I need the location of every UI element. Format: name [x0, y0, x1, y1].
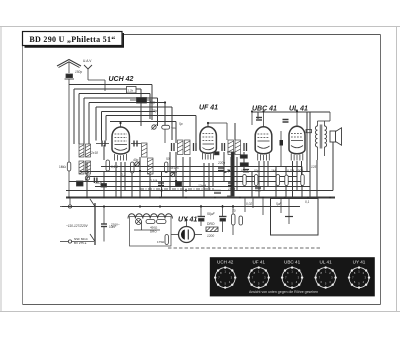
- svg-text:50p: 50p: [254, 169, 260, 173]
- wire bus 3: [90, 176, 297, 178]
- ballast resistor: [146, 220, 155, 224]
- UCH42 tube: [112, 123, 129, 161]
- wire loop 14: [164, 103, 166, 126]
- padder capacitor blob top: [130, 98, 152, 104]
- svg-text:2x05: 2x05: [169, 171, 177, 175]
- wire drop 28: [292, 161, 294, 198]
- junction dot m 2: [207, 122, 209, 124]
- resistor 1MΩ antenna: [67, 162, 71, 198]
- svg-text:5p: 5p: [179, 122, 183, 126]
- wire drop 27: [285, 166, 287, 198]
- wire loop 18: [102, 111, 156, 113]
- wire drop 7: [131, 173, 133, 198]
- wire vert 1: [234, 123, 236, 140]
- junction dot m 4: [251, 110, 253, 112]
- title box: [23, 32, 125, 47]
- wire loop 1: [69, 84, 152, 86]
- junction dot 2: [103, 196, 105, 198]
- svg-text:Ansicht von unten gegen die Rö: Ansicht von unten gegen die Röhre gesehe…: [249, 290, 318, 294]
- junction dot m 1: [164, 101, 166, 103]
- oscillator coil (hatched): [142, 143, 154, 174]
- svg-text:100p: 100p: [228, 187, 235, 191]
- dial lamp: [136, 219, 142, 225]
- wire vert 2: [257, 112, 259, 119]
- svg-text:DRO: DRO: [150, 230, 157, 234]
- svg-text:~110-127/220V: ~110-127/220V: [66, 224, 89, 228]
- wire drop 29: [296, 161, 298, 191]
- svg-text:UCH 42: UCH 42: [217, 260, 234, 265]
- capacitor 10nF mains: [101, 207, 107, 242]
- svg-text:UBC 41: UBC 41: [284, 260, 301, 265]
- trimmer capacitors: [135, 125, 176, 178]
- resistor right of UY41: [232, 205, 243, 235]
- UY41 tube: [171, 220, 202, 243]
- antenna coil T1 (hatched): [79, 144, 91, 174]
- svg-text:0,1: 0,1: [305, 200, 310, 204]
- socket UY 41: [348, 260, 370, 289]
- wire loop 21: [105, 116, 107, 141]
- resistor R 6: [240, 155, 247, 158]
- wire loop 20: [106, 115, 196, 117]
- bus junction dots: [68, 196, 331, 198]
- wire loop 12: [89, 102, 165, 104]
- antenna capacitor 150pF: [65, 74, 75, 163]
- junction dot 1: [68, 196, 70, 198]
- wire drop 23: [258, 161, 260, 198]
- svg-text:UF 41: UF 41: [252, 260, 265, 265]
- wiring UBC/UL top: [252, 112, 330, 167]
- schematic frame: [23, 35, 381, 305]
- wire drop 16: [208, 163, 210, 191]
- svg-text:UL 41: UL 41: [289, 106, 308, 113]
- resistor R 1: [243, 175, 246, 186]
- svg-text:175Ω: 175Ω: [157, 240, 165, 244]
- wire drop 18: [223, 152, 225, 181]
- feedback rectangle: [168, 199, 320, 249]
- tuning cap section below UCH42: [96, 141, 141, 147]
- long bus wires mid: [62, 167, 335, 207]
- wire drop 4: [115, 162, 117, 198]
- wire drop 34: [309, 112, 311, 198]
- resistor pill mid: [162, 125, 178, 143]
- antenna: [57, 60, 81, 74]
- wire drop 9: [149, 174, 151, 198]
- wire drop 20: [236, 157, 238, 191]
- resistor R 3: [276, 175, 279, 186]
- svg-text:150p: 150p: [75, 70, 82, 74]
- wires near bottom right: [245, 198, 263, 216]
- capacitor plate 4: [158, 182, 164, 184]
- wire loop 13: [88, 103, 90, 145]
- wire drop 8: [139, 157, 141, 198]
- wire drop 1: [86, 162, 88, 198]
- aux antenna U.A.V: [84, 65, 105, 91]
- wire drop 30: [301, 161, 303, 186]
- svg-text:UY 41: UY 41: [178, 217, 197, 224]
- resistor R 9: [243, 171, 249, 173]
- junction dot m 6: [185, 189, 187, 191]
- wire drop 17: [212, 163, 214, 186]
- resistor R 7: [240, 163, 248, 166]
- mains component box: [130, 217, 172, 247]
- junction dot m 5: [262, 110, 264, 112]
- AVC dash-dot line: [140, 188, 214, 190]
- capacitor plate 1: [218, 167, 224, 169]
- wire drop 13: [182, 157, 184, 198]
- svg-text:40p: 40p: [133, 158, 139, 162]
- svg-text:0,1M: 0,1M: [150, 179, 157, 183]
- wire bus 6: [66, 190, 333, 192]
- svg-text:UY 41: UY 41: [353, 260, 366, 265]
- junction dot 6: [284, 196, 286, 198]
- UF41 tube: [200, 123, 216, 160]
- wire loop 4: [73, 89, 75, 144]
- wire loop 17: [171, 107, 173, 140]
- blob at UF41 pin base: [215, 152, 220, 155]
- resistor R 8: [243, 169, 249, 171]
- svg-text:300p: 300p: [95, 181, 102, 185]
- wire loop 8: [149, 94, 151, 120]
- wire loop 3: [74, 88, 141, 90]
- svg-text:2,2k: 2,2k: [128, 89, 134, 93]
- resistor 2.2k box top: [127, 87, 137, 94]
- wire loop 22: [195, 116, 197, 144]
- svg-text:BV 275 a: BV 275 a: [74, 241, 87, 245]
- svg-text:DRO: DRO: [207, 222, 215, 226]
- svg-text:3x125: 3x125: [170, 166, 179, 170]
- svg-text:70: 70: [232, 209, 236, 213]
- svg-text:2x18: 2x18: [90, 151, 98, 155]
- svg-text:UCH 42: UCH 42: [109, 76, 134, 83]
- UL41 tube: [289, 119, 305, 161]
- svg-text:5000: 5000: [296, 169, 303, 173]
- svg-text:0,1M: 0,1M: [111, 165, 118, 169]
- speaker: [330, 128, 342, 145]
- wire drop 22: [251, 171, 253, 198]
- svg-text:50: 50: [166, 157, 170, 161]
- wire drop 14: [189, 157, 191, 186]
- output transformer: [315, 121, 326, 160]
- junction dot m 3: [139, 170, 141, 172]
- junction dot 7: [329, 196, 331, 198]
- resistor R 2: [255, 175, 258, 186]
- socket UF 41: [248, 260, 270, 289]
- capacitor plate 3: [255, 187, 261, 189]
- blob near IF1 bottom: [176, 182, 182, 186]
- tiny value labels: [75, 70, 317, 238]
- wire drop 11: [169, 152, 171, 191]
- wire loop 19: [101, 112, 103, 141]
- volume potentiometer: [224, 152, 234, 196]
- socket UBC 41: [281, 260, 303, 289]
- socket UL 41: [314, 260, 336, 289]
- svg-text:0,02: 0,02: [246, 202, 252, 206]
- wire loop 11: [157, 98, 159, 126]
- wire bus 1: [101, 166, 302, 168]
- power switch: [60, 198, 95, 246]
- wire drop 33: [332, 142, 334, 191]
- junction dot 4: [185, 196, 187, 198]
- wire bus 4: [69, 181, 302, 183]
- wire drop 25: [267, 161, 269, 186]
- wire loop 2: [151, 85, 153, 121]
- wire bus 2: [80, 171, 310, 173]
- wire loop 5: [140, 89, 142, 126]
- svg-text:50p: 50p: [150, 101, 156, 105]
- junction dot 3: [139, 196, 141, 198]
- cap stack on bus: [214, 191, 221, 194]
- UBC41 tube: [255, 119, 272, 161]
- IF transformer 1: [172, 140, 197, 155]
- wire loop 10: [83, 98, 85, 144]
- junction dots misc: [103, 101, 298, 221]
- heater chain scallops: [128, 214, 172, 219]
- wire drop 6: [124, 162, 126, 191]
- extra left verticals: [235, 112, 258, 140]
- capacitors mid: [94, 168, 261, 191]
- wire drop 12: [175, 152, 177, 181]
- wire loop 24: [175, 122, 177, 144]
- svg-text:50μF: 50μF: [207, 212, 216, 216]
- svg-text:220V~: 220V~: [111, 223, 120, 227]
- svg-text:U.A.V: U.A.V: [83, 59, 92, 63]
- choke DRO: [206, 227, 218, 232]
- resistor R 5: [301, 175, 304, 186]
- wire drop 35: [306, 112, 308, 172]
- svg-text:25p: 25p: [151, 109, 158, 113]
- wire drop 31: [301, 167, 303, 198]
- wire bus 5: [95, 186, 310, 188]
- resistors below UCH42: [77, 160, 168, 187]
- wire drop 3: [103, 171, 105, 198]
- wire loop 6: [79, 93, 150, 95]
- wire bus 8: [62, 206, 300, 208]
- svg-text:0,1: 0,1: [121, 173, 126, 177]
- svg-text:0,7M: 0,7M: [287, 169, 294, 173]
- wire loop 7: [78, 94, 80, 145]
- capacitor plate 5: [93, 178, 95, 184]
- svg-text:1MΩ: 1MΩ: [59, 165, 66, 169]
- svg-text:UF 41: UF 41: [199, 105, 218, 112]
- wire drop 15: [203, 163, 205, 198]
- svg-text:1M: 1M: [271, 169, 276, 173]
- svg-text:1200: 1200: [207, 234, 214, 238]
- junction dot 5: [239, 196, 241, 198]
- wire drop 24: [263, 161, 265, 191]
- svg-text:UL 41: UL 41: [320, 260, 333, 265]
- vertical drops: [87, 112, 333, 198]
- svg-text:BD 290 U „Philetta 51“: BD 290 U „Philetta 51“: [29, 35, 115, 44]
- wire drop 5: [120, 162, 122, 198]
- wire drop 21: [243, 152, 245, 171]
- wire drop 26: [275, 166, 277, 198]
- wire drop 19: [230, 157, 232, 198]
- electrolytic caps 50uF: [198, 205, 227, 232]
- IF transformer 2: [222, 140, 247, 155]
- wire drop 10: [161, 171, 163, 198]
- wire loop 16: [95, 107, 97, 141]
- svg-text:220p: 220p: [217, 161, 225, 165]
- top interconnect UF41: [208, 123, 227, 140]
- wire loop 9: [84, 97, 158, 99]
- svg-text:70Ω: 70Ω: [171, 126, 177, 130]
- wire drop 2: [103, 145, 105, 160]
- svg-text:13mA: 13mA: [198, 184, 206, 188]
- wire loop 23: [110, 121, 176, 123]
- wire loop 15: [96, 106, 172, 108]
- resistors mid row: [240, 155, 304, 186]
- wire drop 32: [316, 160, 318, 198]
- resistor R 4: [285, 175, 288, 186]
- wire bus 7: [66, 197, 335, 199]
- capacitor plate 2: [228, 182, 234, 184]
- svg-text:125: 125: [311, 165, 317, 169]
- svg-text:0,5M: 0,5M: [241, 169, 248, 173]
- top-left nested wiring: [69, 85, 196, 145]
- socket UCH 42: [214, 260, 236, 289]
